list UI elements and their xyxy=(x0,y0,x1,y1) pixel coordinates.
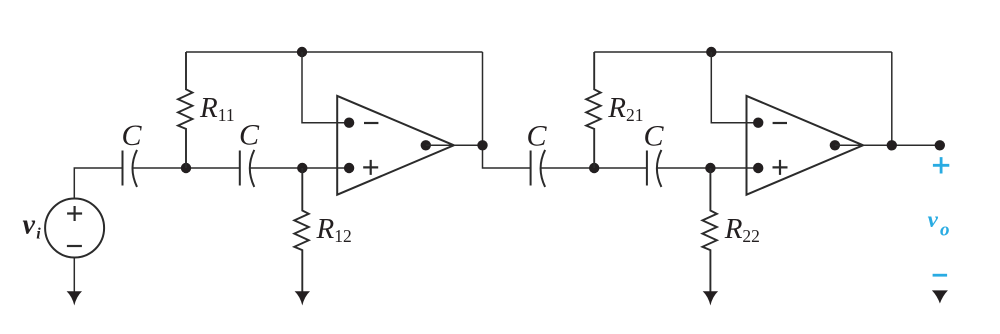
wire C4 to op-amp 2 + input xyxy=(657,167,761,169)
op-amp U1 noninverting input dot xyxy=(344,163,354,173)
minus sign inside source xyxy=(67,245,82,247)
capacitor C (second, curved plate) xyxy=(250,150,255,187)
op-amp U1 minus sign xyxy=(364,122,378,124)
ground arrow under R22 xyxy=(703,291,718,305)
op-amp U2 minus sign xyxy=(773,122,787,124)
node D dot (R22 top) xyxy=(705,163,715,173)
output node stage 2 dot xyxy=(887,140,897,150)
op-amp U2 output dot xyxy=(830,140,840,150)
svg-text:C: C xyxy=(239,119,260,152)
wire C3 to node C xyxy=(541,167,647,169)
feedback vertical stage 1 xyxy=(483,52,531,168)
output minus sign (cyan) xyxy=(933,274,948,277)
wire C to node A xyxy=(133,167,240,169)
node A dot xyxy=(181,163,191,173)
capacitor C (first, left plate) xyxy=(122,151,124,186)
junction dot top stage 2 xyxy=(706,47,716,57)
op-amp U1 triangle xyxy=(337,96,454,195)
output plus sign (cyan) xyxy=(933,157,949,173)
op-amp U1 inverting input dot xyxy=(344,118,354,128)
voltage source vi xyxy=(45,199,104,258)
resistor R22 xyxy=(702,168,717,293)
resistor R11 xyxy=(178,52,193,168)
capacitor C (fourth, left plate) xyxy=(646,151,648,186)
op-amp U1 plus sign xyxy=(363,160,378,175)
op-amp U1 output dot xyxy=(421,140,431,150)
resistor R21 xyxy=(586,52,601,168)
node C dot xyxy=(589,163,599,173)
op-amp U1 output wire xyxy=(426,144,483,146)
capacitor C (third, curved plate) xyxy=(541,150,546,187)
svg-text:R21: R21 xyxy=(607,92,643,125)
op-amp U2 triangle xyxy=(747,96,864,195)
svg-text:R22: R22 xyxy=(724,213,760,246)
ground arrow under R12 xyxy=(295,291,310,305)
svg-text:C: C xyxy=(526,120,547,153)
wire top junction to inverting input xyxy=(302,52,350,123)
feedback vertical stage 2 xyxy=(891,52,893,145)
output terminal dot xyxy=(935,140,945,150)
feedback top wire stage 2 xyxy=(594,51,892,53)
wire source bottom to ground xyxy=(73,258,75,294)
op-amp U2 plus sign xyxy=(773,160,788,175)
junction dot top stage 1 xyxy=(297,47,307,57)
wire source top to main row xyxy=(74,168,122,199)
plus sign inside source xyxy=(67,206,82,221)
svg-text:o: o xyxy=(940,220,950,241)
capacitor C (first, curved plate) xyxy=(133,150,138,187)
capacitor C (third, left plate) xyxy=(530,151,532,186)
svg-text:v: v xyxy=(928,207,939,232)
op-amp U2 output wire xyxy=(835,144,940,146)
svg-text:R12: R12 xyxy=(316,213,352,246)
svg-text:C: C xyxy=(121,119,142,152)
svg-text:v: v xyxy=(23,210,36,241)
wire C2 to op-amp + input xyxy=(250,167,352,169)
svg-text:i: i xyxy=(36,226,41,243)
op-amp U2 inverting input dot xyxy=(753,118,763,128)
node B dot (R12 top) xyxy=(297,163,307,173)
feedback top wire stage 1 xyxy=(186,51,483,53)
op-amp U2 noninverting input dot xyxy=(753,163,763,173)
capacitor C (second, left plate) xyxy=(239,151,241,186)
svg-text:R11: R11 xyxy=(199,92,235,125)
resistor R12 xyxy=(294,168,309,293)
wire top junction 2 to inverting input xyxy=(711,52,760,123)
output node stage 1 dot xyxy=(477,140,487,150)
ground arrow under source xyxy=(67,291,82,305)
svg-text:C: C xyxy=(643,120,664,153)
output bottom marker triangle xyxy=(932,290,948,303)
capacitor C (fourth, curved plate) xyxy=(657,150,662,187)
